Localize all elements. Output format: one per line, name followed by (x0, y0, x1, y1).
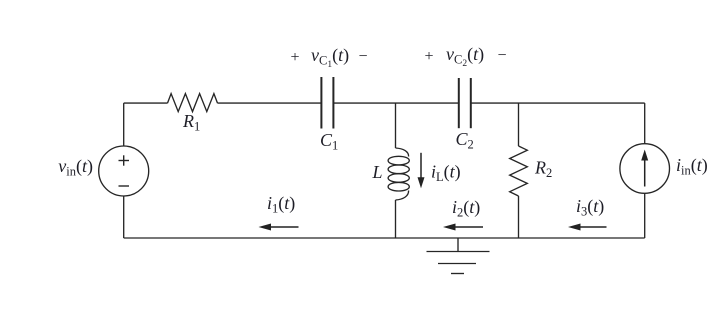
current source iin arrow (641, 150, 648, 187)
current source iin circle (620, 144, 670, 194)
svg-text:−: − (497, 47, 506, 64)
wire L branch lower (395, 200, 397, 238)
current i2 arrow (443, 224, 483, 231)
resistor R2 (510, 146, 528, 196)
svg-text:iin(t): iin(t) (676, 155, 708, 178)
svg-text:R2: R2 (534, 158, 552, 181)
wire C1 to C2 (333, 102, 458, 104)
svg-text:i2(t): i2(t) (452, 197, 480, 220)
voltage source vin circle (99, 146, 149, 196)
svg-text:vC1(t): vC1(t) (311, 45, 349, 70)
wire R1 to C1 (218, 102, 322, 104)
svg-text:L: L (372, 162, 383, 182)
inductor L coil (388, 148, 409, 200)
svg-text:i3(t): i3(t) (576, 196, 604, 219)
svg-text:R1: R1 (182, 111, 200, 134)
wire left rail lower (123, 196, 125, 238)
svg-text:C1: C1 (320, 130, 338, 153)
svg-text:C2: C2 (456, 129, 474, 152)
resistor R1 (168, 94, 218, 112)
svg-text:vin(t): vin(t) (58, 156, 93, 179)
wire R2 branch lower (518, 196, 520, 238)
svg-text:−: − (358, 48, 367, 65)
wire bottom rail (124, 237, 645, 239)
wire right rail lower (644, 193, 646, 238)
voltage source plus sign (119, 155, 130, 165)
voltage source minus sign (119, 185, 130, 187)
inductor current iL arrow (418, 153, 425, 189)
svg-text:iL(t): iL(t) (431, 162, 461, 185)
current i1 arrow (259, 224, 299, 231)
svg-text:+: + (290, 49, 299, 66)
capacitor C2 (459, 78, 471, 128)
ground (427, 238, 490, 274)
wire right rail upper (644, 103, 646, 144)
svg-text:vC2(t): vC2(t) (446, 44, 484, 69)
wire C2 to top-right corner (471, 102, 645, 104)
capacitor C1 (321, 77, 333, 129)
wire R2 branch upper (518, 103, 520, 146)
svg-text:i1(t): i1(t) (267, 193, 295, 216)
wire L branch upper (395, 103, 397, 148)
wire left rail upper (123, 103, 125, 146)
svg-text:+: + (424, 48, 433, 65)
wire top rail left segment (124, 102, 168, 104)
current i3 arrow (568, 224, 607, 231)
